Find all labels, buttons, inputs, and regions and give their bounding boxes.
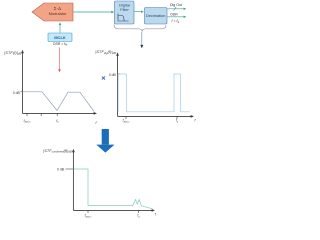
- arrow: big blue result arrow: [96, 129, 114, 153]
- block: decimation: [145, 8, 168, 25]
- arrowhead: plot1 y-axis: [21, 50, 24, 53]
- wire: red arrow from OSR label to modulator STF plot: [58, 48, 61, 73]
- svg-text:×: ×: [101, 73, 106, 82]
- svg-text:ODR: ODR: [170, 13, 178, 17]
- label: plot3 0 dB with tick: [57, 168, 73, 172]
- svg-text:fS: fS: [176, 119, 179, 124]
- block: MCLK clock source: [48, 33, 72, 42]
- ticks: plot3 x-axis: [88, 210, 139, 213]
- wire: MCLK to modulator: [59, 22, 61, 32]
- arrowhead: plot3 x-axis: [152, 209, 155, 212]
- curve: combined filtered response: [74, 169, 153, 209]
- svg-text:MCLK: MCLK: [54, 35, 66, 40]
- wire: digital filter to decimation: [134, 11, 143, 13]
- svg-text:fBW,in: fBW,in: [123, 119, 130, 124]
- modulator U1 (sigma-delta modulator pentagon): [32, 3, 73, 21]
- ticks: plot1 x-axis: [27, 113, 57, 116]
- plot 2: digital filter response axes: [118, 55, 192, 116]
- block: digital filter: [115, 1, 135, 24]
- svg-text:fS: fS: [56, 119, 59, 124]
- svg-text:f: f: [155, 213, 157, 217]
- brace: groups digital filter and decimation: [114, 25, 166, 32]
- svg-text:fBW,in: fBW,in: [24, 119, 31, 124]
- arrowhead: plot3 y-axis: [72, 149, 75, 152]
- curve: digital filter brick-wall response with image band: [118, 74, 190, 112]
- svg-text:|STFdig(f)|dB: |STFdig(f)|dB: [95, 50, 116, 55]
- wire: modulator output to digital filter: [74, 11, 115, 13]
- svg-text:Dig Out: Dig Out: [170, 3, 182, 7]
- plot 1: modulator STF axes: [23, 53, 95, 114]
- svg-text:0 dB: 0 dB: [109, 73, 117, 77]
- svg-text:f: f: [195, 119, 197, 123]
- svg-text:Modulator: Modulator: [49, 11, 67, 16]
- arrowhead: plot2 x-axis: [191, 115, 194, 118]
- label: OSR = fM under MCLK: [53, 42, 68, 47]
- svg-text:OSR = fM: OSR = fM: [53, 42, 68, 47]
- wire: blue arrow from brace to digital filter response plot: [140, 32, 143, 49]
- svg-text:fS: fS: [137, 214, 140, 219]
- label: plot2 0 dB with tick: [109, 73, 120, 77]
- svg-text:0 dB: 0 dB: [57, 168, 65, 172]
- label: plot1 0 dB with tick: [13, 91, 23, 95]
- svg-text:0 dB: 0 dB: [13, 91, 21, 95]
- svg-text:Digital: Digital: [119, 4, 130, 8]
- svg-text:fBW,in: fBW,in: [85, 214, 92, 219]
- arrowhead: plot2 y-axis: [116, 52, 119, 55]
- svg-text:Filter: Filter: [120, 8, 129, 12]
- arrowhead: plot1 x-axis: [94, 112, 97, 115]
- svg-text:|STF(f)|dB: |STF(f)|dB: [4, 51, 21, 56]
- svg-text:Decimation: Decimation: [146, 13, 165, 18]
- wire: decimation Dig Out output with bus slash: [168, 7, 187, 11]
- icon: lowpass response inside digital filter: [118, 14, 129, 22]
- svg-text:|STFcombined(f)|dB: |STFcombined(f)|dB: [43, 149, 72, 154]
- svg-text:f: f: [96, 121, 98, 125]
- svg-text:f = fS: f = fS: [172, 19, 180, 24]
- ticks: plot2 x-axis: [126, 116, 177, 119]
- plot 3: combined response axes: [73, 152, 152, 211]
- curve: modulator STF response: [23, 92, 95, 112]
- wire: decimation ODR output: [168, 16, 187, 18]
